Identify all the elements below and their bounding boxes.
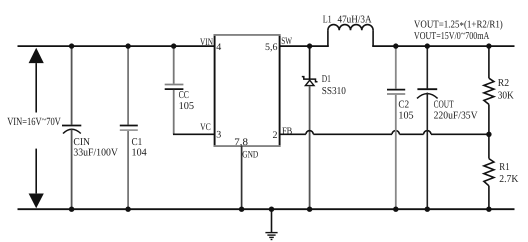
svg-text:30K: 30K xyxy=(498,90,514,101)
voltage arrow down xyxy=(29,149,44,209)
svg-text:VIN=16V~70V: VIN=16V~70V xyxy=(7,114,61,128)
svg-text:SS310: SS310 xyxy=(322,86,346,97)
svg-text:SW: SW xyxy=(281,36,292,47)
svg-text:3: 3 xyxy=(216,130,221,141)
svg-text:C2: C2 xyxy=(398,100,409,111)
node dots bottom rail xyxy=(69,207,492,212)
svg-text:33uF/100V: 33uF/100V xyxy=(73,147,118,158)
svg-text:GND: GND xyxy=(242,150,258,161)
svg-text:2: 2 xyxy=(273,130,278,141)
svg-text:104: 104 xyxy=(132,147,148,158)
svg-text:5,6: 5,6 xyxy=(265,42,278,53)
svg-text:R2: R2 xyxy=(498,78,509,89)
wire FB with hops xyxy=(280,131,489,135)
svg-text:105: 105 xyxy=(398,110,413,121)
capacitor CIN xyxy=(62,46,81,209)
wire SW to inductor xyxy=(280,45,329,47)
capacitor C1 xyxy=(120,46,138,209)
ground xyxy=(265,209,277,239)
svg-text:47uH/3A: 47uH/3A xyxy=(338,14,372,25)
svg-text:220uF/35V: 220uF/35V xyxy=(434,110,478,121)
svg-text:VIN: VIN xyxy=(200,37,213,48)
diode D1 xyxy=(302,46,318,209)
wire VC pin xyxy=(173,133,215,135)
svg-text:VC: VC xyxy=(200,122,211,133)
svg-text:R1: R1 xyxy=(499,162,509,173)
wire GND stem xyxy=(241,146,243,209)
resistor R2 xyxy=(484,46,494,134)
svg-text:VOUT=15V/0~700mA: VOUT=15V/0~700mA xyxy=(414,29,490,42)
inductor L1 xyxy=(328,25,373,47)
svg-text:FB: FB xyxy=(282,126,293,137)
svg-text:4: 4 xyxy=(216,42,221,53)
svg-text:L1: L1 xyxy=(323,14,332,25)
capacitor CC xyxy=(165,46,184,134)
wire top input rail xyxy=(18,45,215,47)
wire output rail xyxy=(372,45,514,47)
node dot FB junction xyxy=(486,132,491,137)
resistor R1 xyxy=(484,134,494,209)
voltage arrow up xyxy=(29,48,44,113)
capacitor C2 xyxy=(387,46,405,209)
svg-text:D1: D1 xyxy=(322,74,331,85)
svg-text:CC: CC xyxy=(179,90,189,101)
svg-text:2.7K: 2.7K xyxy=(499,174,518,185)
svg-text:105: 105 xyxy=(179,101,195,112)
svg-text:COUT: COUT xyxy=(434,100,454,111)
node dots top rail xyxy=(69,43,492,48)
capacitor COUT xyxy=(417,46,438,209)
wire bottom ground rail xyxy=(18,208,515,210)
op-amp U1 IC box xyxy=(214,34,281,147)
